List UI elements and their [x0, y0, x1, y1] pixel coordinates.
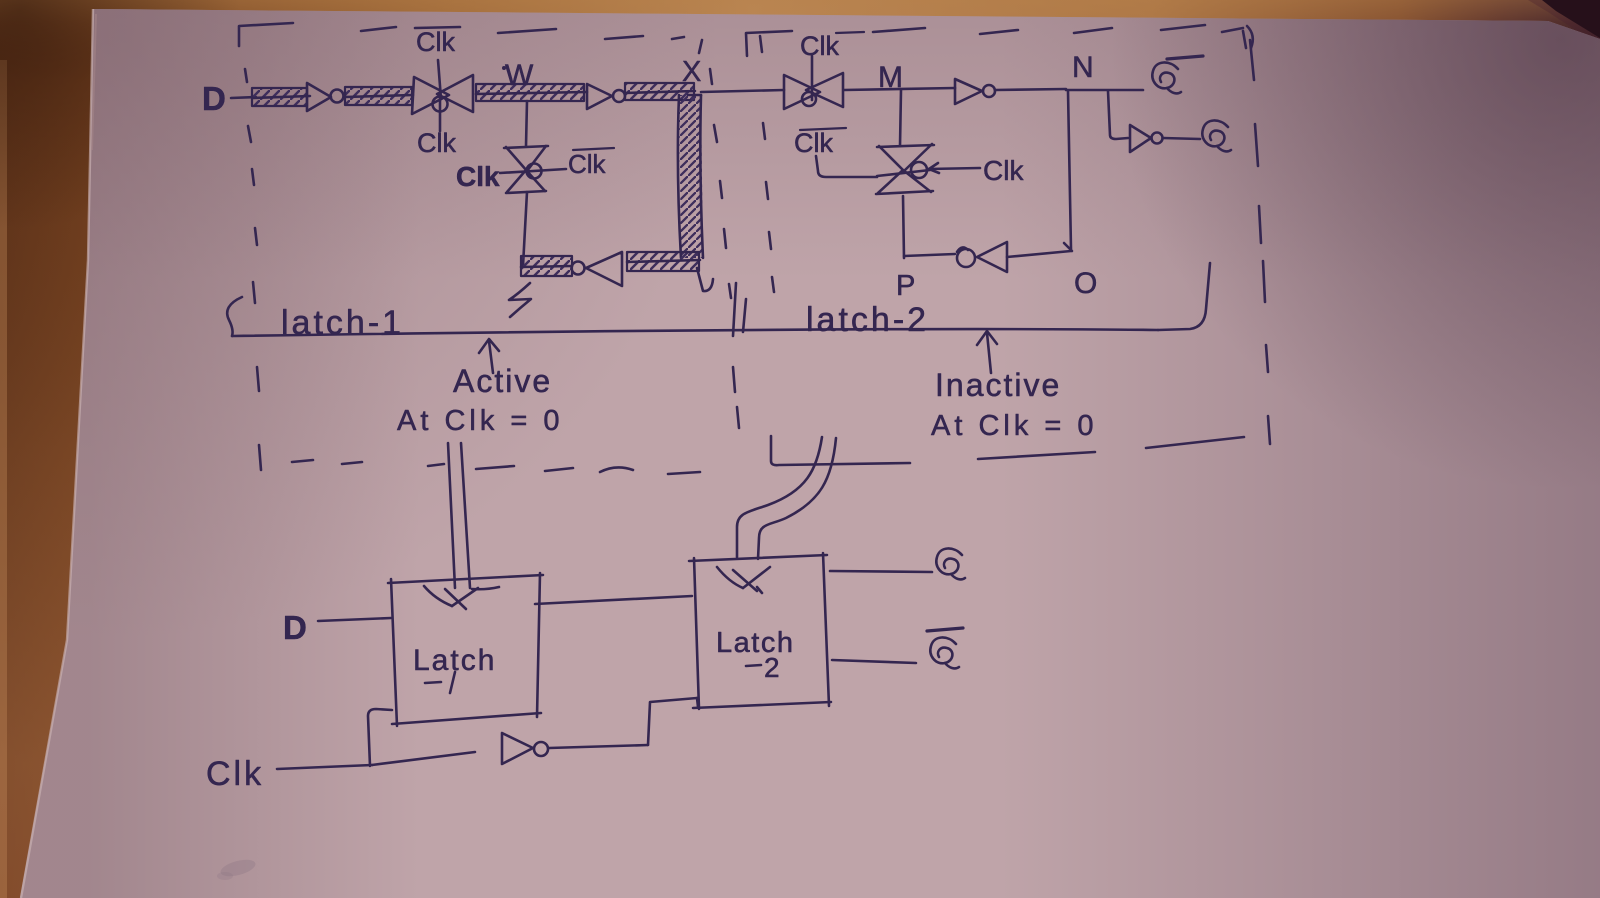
svg-text:X: X — [682, 56, 701, 88]
svg-text:P: P — [896, 270, 915, 302]
svg-text:Clk: Clk — [206, 755, 264, 793]
svg-text:latch-1: latch-1 — [281, 304, 404, 342]
svg-text:N: N — [1072, 51, 1094, 84]
svg-text:At Clk = 0: At Clk = 0 — [931, 410, 1098, 442]
svg-text:Clk: Clk — [568, 149, 607, 179]
svg-text:Clk: Clk — [456, 161, 500, 192]
svg-text:D: D — [202, 80, 226, 117]
svg-text:Inactive: Inactive — [935, 367, 1061, 403]
svg-text:At Clk = 0: At Clk = 0 — [397, 405, 564, 437]
svg-text:O: O — [1074, 267, 1097, 300]
svg-text:Clk: Clk — [794, 128, 833, 158]
svg-text:M: M — [878, 61, 903, 94]
svg-text:D: D — [283, 609, 307, 646]
svg-text:Clk: Clk — [417, 128, 456, 158]
svg-text:latch-2: latch-2 — [806, 301, 929, 339]
svg-text:Latch: Latch — [716, 627, 794, 659]
svg-text:Clk: Clk — [800, 31, 839, 61]
svg-text:Clk: Clk — [416, 27, 455, 57]
svg-text:Active: Active — [453, 363, 552, 399]
svg-text:Clk: Clk — [983, 155, 1024, 186]
svg-text:2: 2 — [764, 652, 780, 683]
svg-text:W: W — [505, 59, 534, 92]
